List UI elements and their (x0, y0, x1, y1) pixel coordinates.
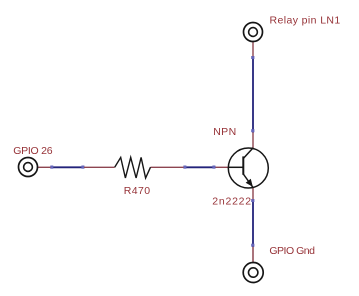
transistor Q1: emitter diagonal (243, 174, 253, 188)
terminal: GPIO Gnd pad (double circle) (243, 263, 263, 283)
transistor Q1: collector diagonal (243, 148, 253, 159)
pin stub: GPIO Gnd terminal pin (252, 247, 254, 263)
svg-text:NPN: NPN (213, 126, 236, 138)
pin stub: transistor Q1 collector pin (252, 132, 254, 148)
transistor Q1: base bar (242, 156, 244, 174)
pin stub: transistor Q1 base pin (216, 166, 229, 168)
wire: GPIO26 terminal to resistor (horizontal, net) (50, 166, 84, 169)
pin stub: GPIO26 terminal pin (37, 166, 50, 168)
pin stub: transistor Q1 emitter pin (252, 187, 254, 199)
transistor Q1 2n2222 (NPN): circle body (228, 148, 268, 188)
svg-text:R470: R470 (124, 185, 151, 197)
pin stub: resistor R1 left lead (84, 166, 115, 168)
svg-text:GPIO 26: GPIO 26 (13, 145, 53, 157)
svg-text:Relay pin LN1: Relay pin LN1 (270, 15, 341, 27)
transistor Q1: base lead inside body (228, 166, 243, 168)
terminal: Relay pin LN1 pad (double circle) (244, 23, 263, 42)
svg-text:GPIO Gnd: GPIO Gnd (269, 245, 315, 257)
pin stub: relay terminal pin (252, 41, 254, 56)
wire: relay terminal down to collector (vertical, net) (251, 56, 254, 133)
transistor Q1: emitter arrowhead (246, 179, 252, 186)
wire: resistor to transistor base (horizontal, net) (183, 166, 215, 169)
wire: emitter down to GPIO Gnd terminal (vertical, net) (251, 199, 254, 247)
svg-text:2n2222: 2n2222 (212, 195, 252, 207)
resistor R470 (zigzag body) (115, 157, 151, 178)
terminal: GPIO 26 pad (double circle) (19, 158, 38, 177)
pin stub: resistor R1 right lead (151, 166, 184, 168)
